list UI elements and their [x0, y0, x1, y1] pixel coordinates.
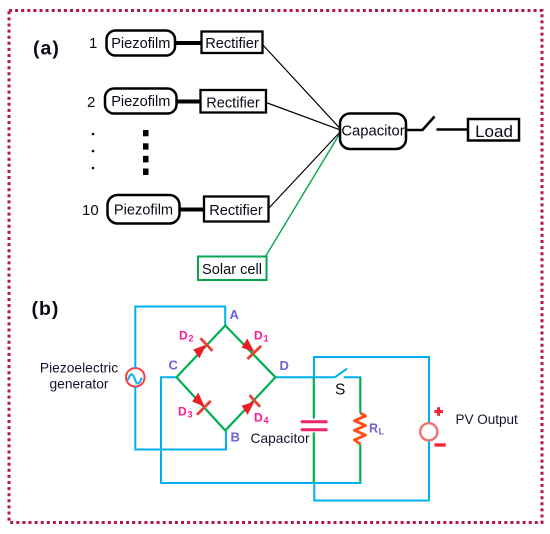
- wire piezofilm1 to rectifier1: [174, 41, 202, 45]
- index label 10: [82, 202, 99, 219]
- label RL: [369, 422, 385, 437]
- solar cell block: [198, 257, 267, 281]
- svg-text:L: L: [379, 427, 385, 437]
- rectifier block 1: [202, 32, 263, 54]
- RL branch wire bottom: [359, 445, 361, 482]
- svg-text:1: 1: [264, 334, 269, 344]
- diode D2: [193, 338, 212, 358]
- svg-text:Load: Load: [475, 122, 513, 141]
- rectifier block 10: [204, 197, 269, 222]
- svg-text:B: B: [231, 430, 240, 445]
- wire piezofilm10 to rectifier10: [179, 208, 205, 212]
- wire AC top to corner: [135, 307, 225, 369]
- PV minus sign: [435, 443, 446, 446]
- wire node D to switch: [276, 376, 335, 378]
- svg-text:Rectifier: Rectifier: [205, 36, 259, 52]
- RL branch wire top: [359, 377, 361, 413]
- svg-text:Capacitor: Capacitor: [251, 431, 310, 446]
- capacitor branch wire top: [313, 377, 315, 418]
- svg-text:D: D: [280, 358, 289, 373]
- PV output source: [420, 423, 437, 440]
- ellipsis dots bold column: [143, 130, 149, 175]
- svg-text:PV Output: PV Output: [456, 412, 519, 427]
- resistor RL zigzag: [355, 413, 366, 444]
- label D4: [254, 411, 269, 426]
- capacitor branch wire bottom: [313, 433, 315, 484]
- switch SW blade: [422, 117, 435, 131]
- svg-text:2: 2: [87, 94, 95, 111]
- diode D4: [242, 395, 261, 415]
- wire switch to load: [437, 128, 469, 131]
- diode D1: [242, 339, 262, 360]
- load block: [468, 119, 519, 141]
- label piezoelectric generator: [40, 361, 118, 392]
- wire rectifier10 to capacitor node: [269, 132, 341, 209]
- svg-text:10: 10: [82, 202, 99, 219]
- svg-text:R: R: [369, 422, 378, 436]
- piezofilm block 2: [105, 89, 177, 114]
- wire rectifier2 to capacitor node: [266, 103, 341, 131]
- wire AC bottom loop to node B: [135, 387, 226, 450]
- svg-text:Piezofilm: Piezofilm: [111, 94, 170, 110]
- svg-text:generator: generator: [49, 377, 108, 392]
- capacitor C plates: [301, 422, 328, 430]
- ellipsis dots small column: [92, 133, 95, 170]
- svg-text:Piezoelectric: Piezoelectric: [40, 361, 118, 376]
- piezofilm block 1: [107, 31, 176, 56]
- svg-text:Rectifier: Rectifier: [206, 96, 260, 112]
- svg-text:D: D: [178, 405, 187, 419]
- switch S blade: [335, 369, 347, 378]
- index label 2: [87, 94, 95, 111]
- svg-text:Rectifier: Rectifier: [209, 203, 263, 219]
- wire rectifier1 to capacitor node: [263, 45, 341, 130]
- wire solar cell to capacitor node (green): [266, 134, 340, 257]
- bridge arm wires (diamond): [177, 326, 276, 431]
- PV plus sign: [434, 407, 443, 416]
- label D1: [254, 329, 269, 344]
- svg-text:3: 3: [188, 410, 193, 420]
- svg-text:A: A: [230, 307, 240, 322]
- svg-text:S: S: [335, 382, 345, 399]
- wire capacitor to switch: [406, 129, 423, 132]
- svg-text:4: 4: [264, 416, 269, 426]
- label D2: [179, 329, 194, 344]
- PV loop rectangle wires: [314, 357, 429, 501]
- svg-text:Piezofilm: Piezofilm: [114, 203, 173, 219]
- rectifier block 2: [201, 90, 267, 113]
- svg-text:(a): (a): [33, 38, 60, 60]
- svg-text:1: 1: [89, 35, 97, 52]
- svg-text:D: D: [254, 411, 263, 425]
- wire node C to bottom rail: [161, 377, 362, 483]
- diode D3: [192, 393, 211, 415]
- svg-text:D: D: [179, 329, 188, 343]
- svg-text:C: C: [169, 358, 179, 373]
- wire switch to RL branch: [344, 376, 362, 378]
- svg-text:Capacitor: Capacitor: [341, 123, 404, 139]
- capacitor block: [340, 114, 406, 150]
- piezofilm block 10: [108, 195, 180, 224]
- svg-text:(b): (b): [32, 298, 60, 320]
- label (b): [32, 298, 60, 320]
- AC source piezo generator: [126, 368, 145, 387]
- label (a): [33, 38, 60, 60]
- label D3: [178, 405, 193, 420]
- svg-text:Solar cell: Solar cell: [202, 262, 262, 278]
- svg-text:Piezofilm: Piezofilm: [111, 36, 170, 52]
- wire piezofilm2 to rectifier2: [176, 100, 202, 104]
- svg-text:2: 2: [189, 334, 194, 344]
- index label 1: [89, 35, 97, 52]
- svg-text:D: D: [254, 329, 263, 343]
